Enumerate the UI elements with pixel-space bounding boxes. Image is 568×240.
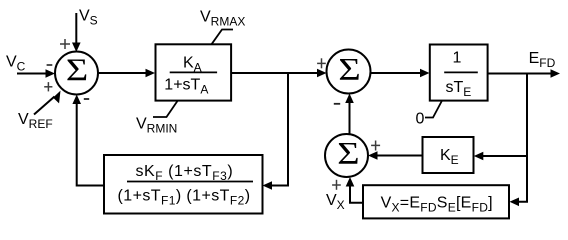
sign plus S3 bottom input <box>332 180 341 190</box>
wire VREF input diagonal <box>34 97 55 115</box>
saturation block VX=EFD SE[EFD] <box>363 185 509 218</box>
sign plus VS <box>60 39 70 49</box>
wire integrator to EFD output (junction at x=527) <box>488 73 552 75</box>
gain block KE <box>423 137 474 173</box>
wire branch to KE block <box>482 155 527 157</box>
wire VX block to S3 <box>350 184 363 203</box>
summing junction S2 <box>327 50 371 94</box>
wire VC input <box>17 73 48 75</box>
summing junction S1 <box>55 52 98 95</box>
svg-text:0: 0 <box>416 111 425 128</box>
sign plus S2 left input <box>317 58 326 68</box>
sign minus VC <box>47 64 53 66</box>
svg-text:Σ: Σ <box>338 52 360 87</box>
wire S1 to amplifier <box>98 72 147 74</box>
svg-text:Σ: Σ <box>337 136 359 171</box>
svg-text:1: 1 <box>453 50 462 67</box>
sign minus S2 bottom input <box>334 103 340 105</box>
svg-text:Σ: Σ <box>66 53 88 88</box>
sign plus VREF <box>44 82 52 91</box>
wire junction drop to sKF block <box>271 73 288 186</box>
feedback block sKF <box>104 155 263 214</box>
wire EFD feedback drop to VX block <box>518 74 527 202</box>
wire sKF to S1 <box>77 102 104 186</box>
sign minus S1 bottom feedback <box>84 98 89 100</box>
amplifier block KA/(1+sTA) <box>156 44 232 100</box>
summing junction S3 <box>325 134 368 177</box>
wire S3 to S2 <box>349 101 351 134</box>
integrator block 1/sTE <box>430 45 488 101</box>
wire VS input <box>75 13 77 44</box>
wire S2 to integrator <box>371 72 423 74</box>
wire amplifier to S2 (junction at x=288) <box>231 72 319 74</box>
sign plus S3 right input <box>371 141 380 151</box>
wire KE to S3 <box>376 155 423 157</box>
